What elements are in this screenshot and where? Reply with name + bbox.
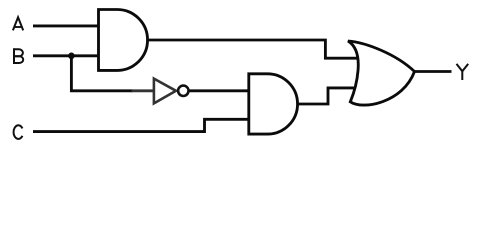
and-gate 2 (inputs NOT B, C) xyxy=(249,74,298,134)
and-gate 1 (inputs A,B) xyxy=(99,10,148,71)
wire AND1 output to OR input 1 xyxy=(147,40,361,58)
inverter bubble xyxy=(178,86,188,96)
label C xyxy=(14,125,23,139)
or-gate (output Y) xyxy=(348,41,415,105)
wire C input with step up xyxy=(33,119,250,131)
wire B input xyxy=(33,54,100,57)
label Y xyxy=(457,64,469,80)
inverter triangle (NOT gate) xyxy=(154,79,176,104)
wire inverter output to AND2 xyxy=(186,89,250,92)
junction node on B xyxy=(68,53,75,60)
wire gray segment into inverter xyxy=(132,89,156,92)
wire AND2 output to OR input 2 xyxy=(297,88,359,104)
label B xyxy=(14,48,24,64)
wire B branch to inverter xyxy=(71,55,132,91)
wire OR output Y xyxy=(414,70,452,73)
label A xyxy=(13,17,23,30)
wire A input xyxy=(33,24,100,27)
